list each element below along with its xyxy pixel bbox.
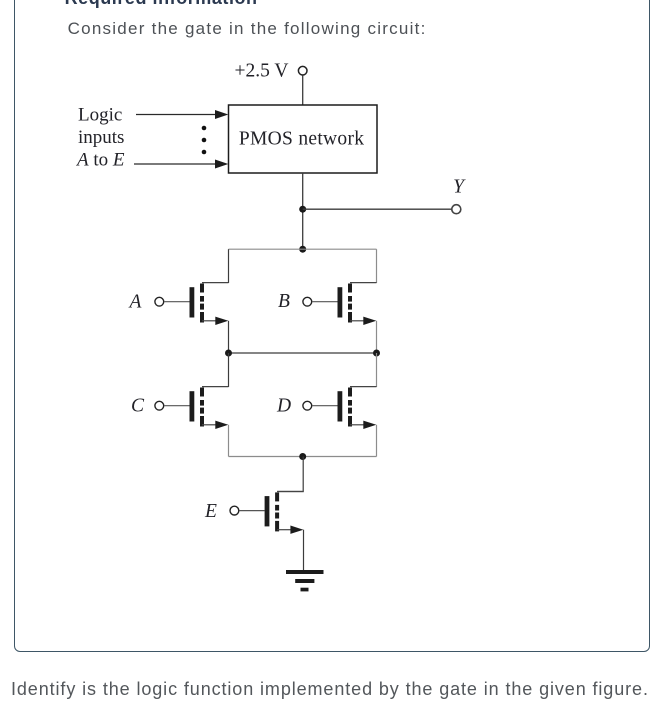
- supply terminal circle: [298, 66, 307, 75]
- svg-text:E: E: [204, 501, 217, 522]
- wire source C: [228, 425, 230, 457]
- output terminal circle Y: [452, 205, 461, 214]
- transistor B: [303, 283, 377, 325]
- wire bottom rail: [229, 456, 377, 458]
- junction dot middle right: [373, 350, 380, 357]
- wire source D: [376, 425, 378, 457]
- wire source B: [376, 321, 378, 353]
- svg-text:C: C: [131, 396, 145, 417]
- svg-text:PMOS network: PMOS network: [239, 129, 364, 150]
- input arrow bottom: [134, 160, 228, 169]
- svg-text:Y: Y: [453, 177, 466, 198]
- junction dot top rail: [299, 246, 306, 253]
- wire top rail: [229, 248, 377, 250]
- wire drain D: [376, 353, 378, 387]
- wire source A: [228, 321, 230, 353]
- wire to drain E: [277, 457, 303, 492]
- svg-text:Logic: Logic: [78, 105, 122, 126]
- wire drain B: [376, 249, 378, 283]
- heading fragment: [65, 0, 258, 7]
- transistor D: [303, 387, 377, 429]
- svg-text:D: D: [276, 396, 291, 417]
- wire to output Y: [303, 208, 452, 210]
- transistor A: [155, 283, 229, 325]
- label Logic inputs A to E: [75, 105, 125, 171]
- wire source E to ground: [303, 530, 305, 572]
- svg-text:A to E: A to E: [75, 150, 125, 171]
- bottom question text: [11, 680, 649, 698]
- input arrow top: [136, 110, 228, 119]
- junction dot middle left: [225, 350, 232, 357]
- svg-text:B: B: [278, 291, 290, 312]
- wire PMOS box to node rail: [302, 173, 304, 249]
- junction dot bottom rail: [299, 453, 306, 460]
- transistor C: [155, 387, 229, 429]
- ground: [286, 570, 324, 591]
- wire drain C: [228, 353, 230, 387]
- wire middle rail: [229, 352, 377, 354]
- ellipsis dots: [202, 126, 207, 155]
- svg-text:inputs: inputs: [78, 127, 124, 148]
- node Y junction dot: [299, 206, 306, 213]
- wire drain A: [228, 249, 230, 283]
- transistor E: [230, 492, 304, 534]
- svg-text:A: A: [128, 292, 142, 313]
- wire supply to PMOS box: [302, 75, 304, 105]
- svg-text:+2.5 V: +2.5 V: [235, 61, 289, 82]
- PMOS network box U1: [229, 105, 378, 173]
